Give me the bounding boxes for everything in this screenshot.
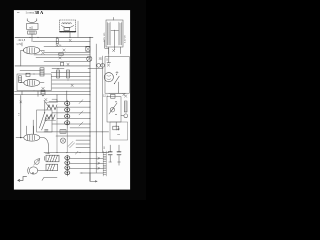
diagonal link <box>46 114 52 121</box>
switch diagonal <box>114 76 119 83</box>
heater chain dots <box>66 157 68 174</box>
resistor mid 1 <box>57 70 60 78</box>
hatched cap <box>61 62 64 65</box>
V2 leads <box>20 82 44 84</box>
pickup symbol <box>35 160 40 165</box>
wire row y61 <box>44 60 90 62</box>
drop from switch <box>118 82 120 93</box>
speaker box <box>27 23 38 29</box>
schematic page <box>14 10 130 190</box>
pilot lamp <box>87 56 92 61</box>
svg-text:→4Ω 1,5: →4Ω 1,5 <box>16 40 26 42</box>
double diagonal <box>68 141 75 147</box>
wire row y68.6 <box>52 68 64 70</box>
resistor mid 2 <box>67 70 70 78</box>
short bottom wire <box>42 177 57 180</box>
stage1 top box <box>26 73 30 76</box>
wire row y107 <box>57 106 90 108</box>
wire row y118.5 <box>57 117 90 119</box>
black scan border <box>0 0 146 200</box>
tick near row152 <box>75 151 78 154</box>
parallel cap mark <box>45 129 48 131</box>
output tube V1 <box>23 47 39 54</box>
motor circle <box>29 167 37 174</box>
stage1 resistor <box>19 76 22 83</box>
wires transformer down <box>109 47 121 54</box>
corner bracket <box>52 99 57 101</box>
core line <box>111 30 118 47</box>
resistor under top wire <box>56 39 58 44</box>
svg-text:mΩ: mΩ <box>29 25 33 29</box>
wire stubs left <box>21 43 22 66</box>
dots on y152.6 <box>57 152 97 153</box>
left winding bar <box>107 22 110 45</box>
right winding bar <box>103 151 106 176</box>
wire row y101.6 <box>49 101 90 103</box>
wire row y52 <box>44 51 90 53</box>
junction dots <box>29 37 90 38</box>
svg-text:Lorenz: Lorenz <box>26 10 35 14</box>
X upper-left of zigzag <box>45 98 47 100</box>
wire row y72.4 <box>51 71 90 73</box>
mains plug arrow <box>18 177 27 181</box>
plus minus <box>117 128 119 135</box>
mains transformer winding box 1 <box>46 155 59 162</box>
svg-text:6,3V 4V: 6,3V 4V <box>125 35 127 43</box>
wire row y84 <box>52 83 90 85</box>
X mark mid84 <box>71 84 73 86</box>
X mark row2 <box>63 49 65 51</box>
wire row y76.2 <box>51 75 90 77</box>
wire row y136 <box>56 135 90 137</box>
bus dots <box>90 101 103 136</box>
chain feed stubs <box>57 91 67 101</box>
stub verticals <box>105 40 111 63</box>
electrolytic cap 2 <box>118 145 120 162</box>
svg-text:1,7Ω: 1,7Ω <box>16 44 21 46</box>
stage2 stub <box>32 120 34 134</box>
drop from control box <box>115 122 117 130</box>
antenna lead <box>20 95 22 137</box>
mark hash <box>112 49 114 51</box>
svg-text:302: 302 <box>99 58 104 61</box>
stage2 box <box>37 110 52 132</box>
component box <box>113 126 119 130</box>
ground stub <box>118 162 120 165</box>
main bus x90 <box>89 37 91 181</box>
field coil dashed box <box>60 20 76 32</box>
V3 top leads <box>27 126 34 134</box>
svg-text:38 A: 38 A <box>35 10 44 15</box>
mains transformer box <box>106 20 123 47</box>
stage2 diagonal cap <box>39 113 44 128</box>
V2 grids <box>27 80 34 85</box>
plus mark <box>116 71 118 73</box>
circle with slash <box>110 108 114 112</box>
short drops <box>22 91 38 97</box>
stage1 box <box>17 74 51 91</box>
X mark <box>56 44 58 46</box>
power box <box>105 57 129 94</box>
dark bottom bar <box>60 31 76 33</box>
small box row3 <box>59 53 63 55</box>
IF coil chain <box>66 100 68 128</box>
wire row y95 <box>15 94 91 96</box>
wire row y128 <box>70 127 90 129</box>
stage1 coil <box>40 68 44 76</box>
V3 grids <box>27 135 34 140</box>
right small circle <box>124 114 128 118</box>
wire row y55 <box>34 54 90 56</box>
wire y52.3 stub <box>84 51 90 53</box>
wire speaker to bus <box>31 34 33 37</box>
V1 leads <box>21 49 45 51</box>
wire row y113 <box>52 112 90 114</box>
speaker horn <box>27 20 37 22</box>
V3 right lead arc <box>40 138 49 154</box>
detector tube V3 <box>24 134 40 141</box>
wire row y46 <box>44 45 90 47</box>
row arrows <box>98 157 100 169</box>
electrolytic cap 1 <box>109 145 111 162</box>
vertical link left <box>44 102 46 113</box>
grid cap circle <box>60 138 65 143</box>
wire row y124 <box>52 123 90 125</box>
top tick <box>113 17 115 20</box>
switch in box <box>109 103 117 114</box>
right marks <box>123 93 125 95</box>
cap bottom ticks <box>109 161 121 163</box>
twin sockets <box>97 64 101 68</box>
wire row y147.4 <box>76 146 90 148</box>
rectifier tube <box>104 73 113 82</box>
chain ellipse dots <box>66 103 68 124</box>
svg-text:12,1: 12,1 <box>103 94 108 97</box>
wire row y57.6 <box>36 57 90 59</box>
right winding bar <box>119 22 122 45</box>
wire row y66 <box>15 65 90 67</box>
coil scribbles <box>62 22 72 25</box>
main top wire <box>15 36 93 38</box>
X under <box>107 64 110 67</box>
wire y93.4 <box>109 92 126 94</box>
stage2 diagonal 2 <box>42 118 47 130</box>
X mark right of V1 <box>41 51 44 54</box>
tuning zigzag 2 <box>45 115 55 120</box>
drop to bottom <box>90 173 97 181</box>
coil core rect <box>64 27 70 30</box>
wire row y91 <box>15 90 91 92</box>
wire row y88 <box>52 87 90 89</box>
zigzag1 baseline <box>46 101 57 103</box>
wire row y41.6 <box>33 41 90 43</box>
antenna arrow tick <box>20 101 22 103</box>
control box <box>107 97 121 122</box>
V1 grid wires <box>27 48 35 53</box>
corner scribble <box>46 152 50 155</box>
mid dots <box>58 68 91 88</box>
lower right box <box>110 122 128 140</box>
heater rows <box>70 158 103 173</box>
wire right of coil <box>77 21 79 37</box>
right X <box>124 95 127 98</box>
title dash <box>17 11 19 13</box>
small box under <box>111 94 115 98</box>
vertical x67 lower <box>66 128 68 153</box>
coil on long wire <box>60 130 66 134</box>
wire coil to bus <box>69 32 71 37</box>
right winding small <box>124 101 127 112</box>
X mark top row <box>69 39 71 41</box>
dots on rows <box>57 91 91 96</box>
wire row y144 <box>76 143 90 145</box>
bus x102 <box>101 56 103 153</box>
X mark row5 <box>67 63 69 65</box>
wire row y70 <box>20 70 43 72</box>
cap on row y91 <box>41 90 45 95</box>
left arc <box>27 167 30 174</box>
wire row y80 <box>52 79 90 81</box>
zigzag2 baseline <box>44 119 55 121</box>
tuning zigzag 1 <box>47 105 57 110</box>
fuse box <box>86 47 90 51</box>
V3 left lead <box>16 137 24 139</box>
box top dots <box>26 74 41 75</box>
bus x96 <box>95 44 97 173</box>
output transformer under speaker <box>28 31 37 34</box>
wire row y140 <box>76 139 90 141</box>
X mark row4 <box>59 57 61 59</box>
long wire y152.6 <box>44 152 109 154</box>
vertical x57 <box>56 107 58 153</box>
mains transformer winding box 2 <box>46 164 58 170</box>
winding stubs <box>44 156 46 160</box>
wire y68.8 <box>88 68 103 70</box>
arrow ticks on rows <box>79 100 83 126</box>
tube V2 <box>24 79 40 86</box>
coil bowl <box>61 25 73 27</box>
heater chain <box>66 155 68 176</box>
diagonal feed <box>44 100 49 107</box>
long wire y132 <box>44 131 109 133</box>
stub x32 <box>31 37 33 41</box>
